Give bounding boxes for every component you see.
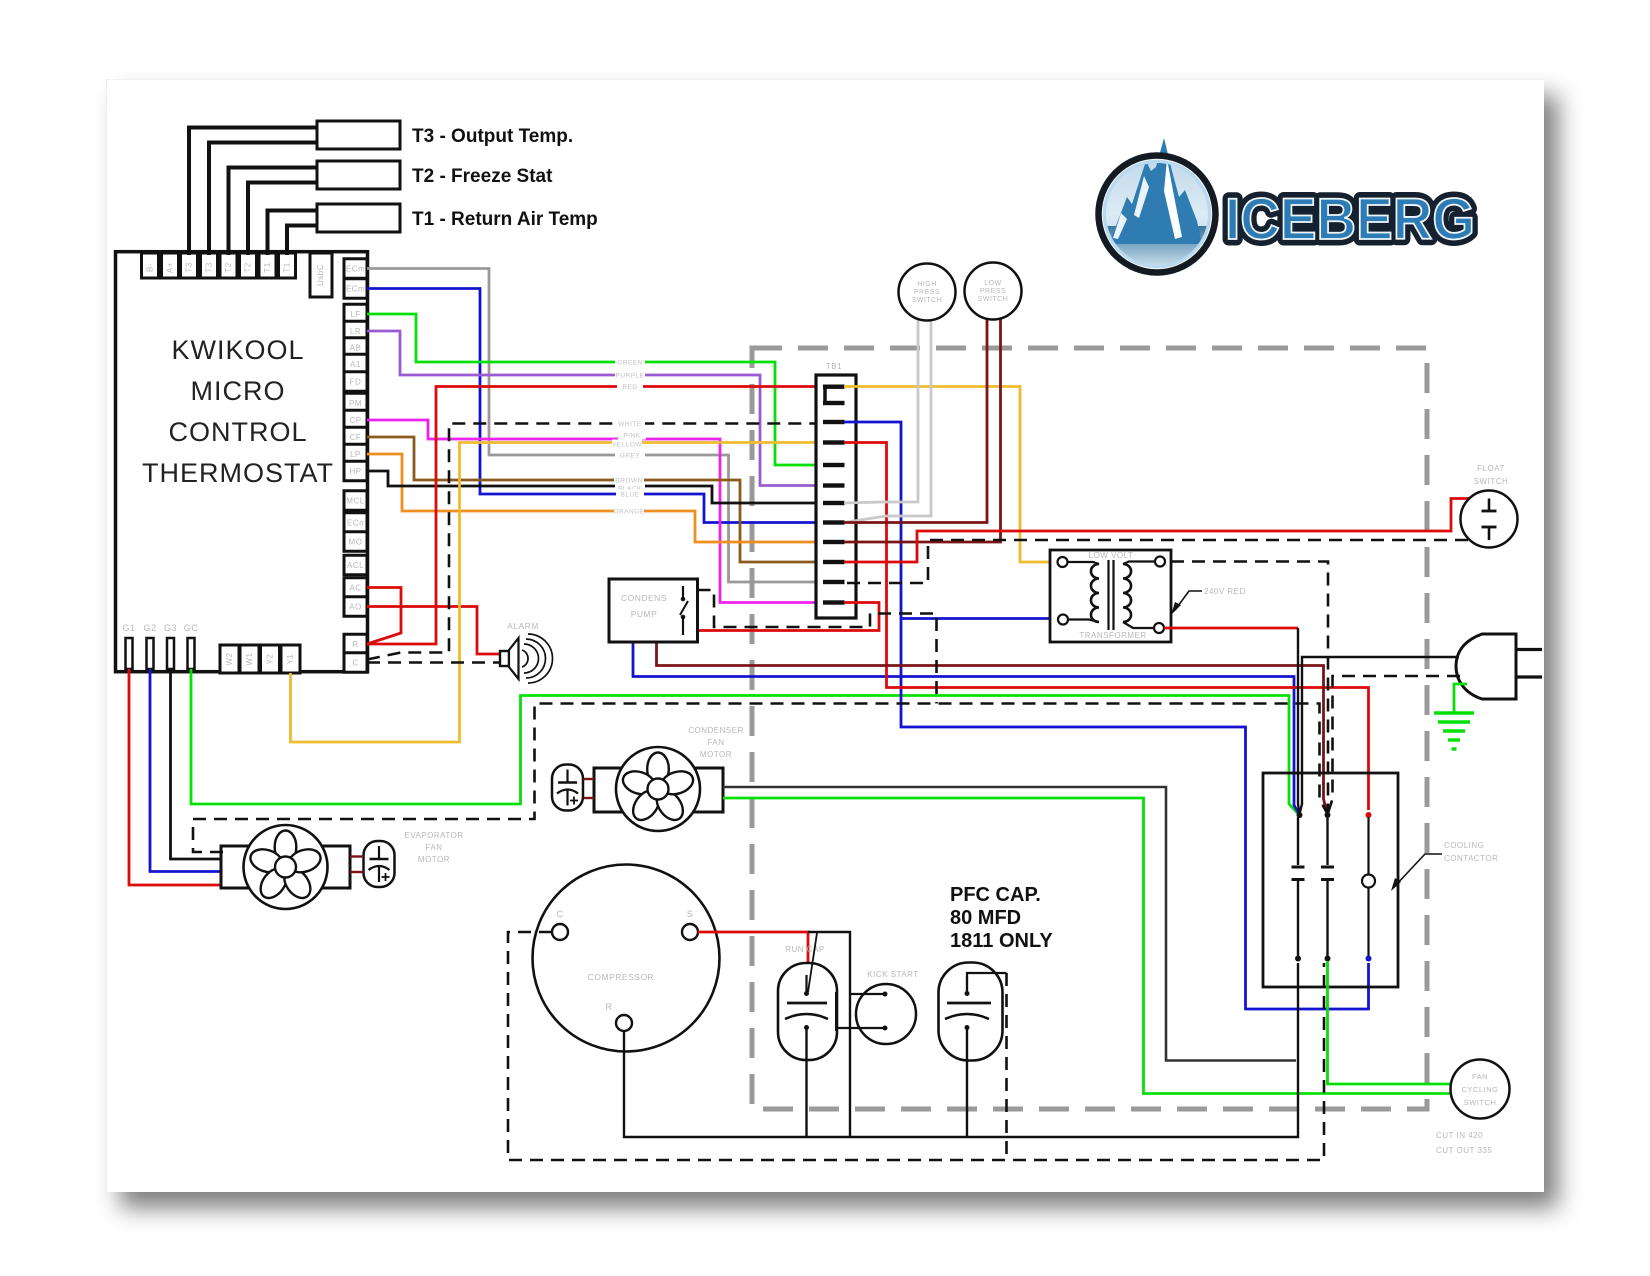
- svg-text:TB1: TB1: [826, 362, 842, 371]
- svg-text:KWIKOOL: KWIKOOL: [171, 335, 304, 365]
- wire BLACK HP-TB1: [367, 471, 827, 503]
- svg-text:LOW VOLT: LOW VOLT: [1089, 551, 1134, 560]
- svg-text:A+: A+: [166, 262, 175, 273]
- wire green condenser-fan cycling switch: [723, 798, 1451, 1094]
- svg-text:W2: W2: [225, 652, 234, 665]
- svg-text:GC: GC: [184, 623, 199, 633]
- svg-text:R: R: [606, 1002, 613, 1012]
- wire YELLOW TB1-transformer: [844, 387, 1057, 563]
- wire RED R-TB1: [367, 387, 827, 645]
- svg-text:FAN: FAN: [1472, 1072, 1488, 1081]
- svg-text:ORANGE: ORANGE: [613, 508, 644, 515]
- svg-text:TRANSFORMER: TRANSFORMER: [1079, 631, 1146, 640]
- svg-text:PRESS: PRESS: [914, 289, 940, 296]
- thermostat controller U1 box: [116, 252, 368, 672]
- evaporator fan motor M1: [221, 846, 350, 888]
- svg-text:ALARM: ALARM: [507, 621, 539, 631]
- wire evap cap lead a: [350, 855, 364, 857]
- condenser fan motor M2: [594, 768, 723, 812]
- wire dashed plug neutral: [1328, 676, 1460, 813]
- svg-text:ECm: ECm: [346, 285, 365, 294]
- svg-text:PURPLE: PURPLE: [615, 372, 644, 379]
- svg-text:Y1: Y1: [286, 654, 295, 665]
- svg-text:WHITE: WHITE: [618, 421, 642, 428]
- svg-text:LOW: LOW: [984, 280, 1001, 287]
- wire WHITE dashed C-TB1: [367, 424, 827, 660]
- kick start relay K1: [856, 984, 916, 1044]
- svg-text:CP: CP: [349, 416, 361, 425]
- svg-text:C: C: [557, 909, 564, 919]
- compressor M3: [533, 865, 720, 1052]
- wire sensor T2 lead b: [248, 183, 317, 256]
- wire sensor T3 lead a: [189, 128, 317, 256]
- float switch S3: [1461, 491, 1518, 548]
- sensor T1 box: [317, 204, 400, 232]
- svg-text:RUN CAP: RUN CAP: [785, 945, 825, 954]
- condensate pump box: [609, 579, 698, 642]
- wire GREEN LF-TB1: [367, 314, 827, 465]
- wire RED pump-TB1: [698, 603, 880, 631]
- thermostat top terminal row B- A+ T3 T3 T2 T2 T1 T1: [142, 253, 296, 278]
- wire GC green to contactor: [191, 669, 1299, 814]
- svg-text:PINK: PINK: [623, 432, 640, 439]
- wire BROWN CF-TB1: [367, 437, 827, 562]
- wire BLUE to contactor col1: [901, 677, 1299, 815]
- svg-text:T3: T3: [205, 262, 214, 272]
- low pressure switch S2: [965, 263, 1022, 320]
- wire dashed evap neutral: [193, 704, 1327, 853]
- wire label BLACK: [615, 484, 645, 493]
- wire RED AO-alarm: [367, 607, 500, 655]
- terminal block TB1: [816, 375, 856, 618]
- svg-text:COMPRESSOR: COMPRESSOR: [588, 972, 654, 982]
- thermostat label KWIKOOL MICRO CONTROL THERMOSTAT: [142, 335, 334, 488]
- svg-text:T3 - Output Temp.: T3 - Output Temp.: [412, 126, 573, 147]
- svg-text:FAN: FAN: [425, 843, 442, 852]
- run capacitor C1: [778, 963, 837, 1060]
- svg-text:MCL: MCL: [346, 497, 364, 506]
- wire ORANGE LP-TB1: [367, 454, 827, 542]
- wire sensor T3 lead b: [209, 143, 317, 256]
- svg-text:T1 - Return Air Temp: T1 - Return Air Temp: [412, 209, 598, 230]
- svg-text:FAN: FAN: [707, 738, 724, 747]
- svg-text:PRESS: PRESS: [980, 288, 1006, 295]
- wire sensor T1 lead a: [268, 211, 318, 256]
- svg-text:240V RED: 240V RED: [1204, 587, 1246, 596]
- thermostat right terminal column: [344, 259, 367, 673]
- svg-text:EVAPORATOR: EVAPORATOR: [404, 831, 463, 840]
- wire black S to kick start: [808, 932, 850, 1137]
- condenser fan capacitor C-cf: [552, 765, 583, 811]
- wire dashed pump control: [698, 590, 937, 704]
- svg-text:T2 - Freeze Stat: T2 - Freeze Stat: [412, 166, 553, 187]
- wire evap cap lead b: [350, 871, 364, 873]
- svg-text:PUMP: PUMP: [631, 609, 658, 619]
- cooling contactor K2: [1263, 773, 1398, 987]
- svg-text:SWITCH: SWITCH: [1464, 1098, 1497, 1107]
- svg-text:BLUE: BLUE: [621, 491, 640, 498]
- svg-text:PM: PM: [349, 399, 362, 408]
- transformer T1 low volt: [1050, 550, 1171, 642]
- wire RED AC-R jumper: [367, 588, 401, 645]
- svg-text:RED: RED: [622, 384, 637, 391]
- PFC capacitor C2: [939, 963, 1003, 1061]
- wire dashed float switch-TB1: [844, 540, 1489, 583]
- thermostat UsbC terminal: [310, 253, 332, 297]
- wire YELLOW Y1-TB1: [291, 443, 828, 743]
- svg-text:YELLOW: YELLOW: [612, 441, 642, 448]
- wire RED compressor S: [698, 932, 808, 975]
- svg-text:1811 ONLY: 1811 ONLY: [950, 930, 1053, 952]
- wire GREY ECm-TB1: [367, 269, 827, 583]
- svg-text:S: S: [687, 909, 694, 919]
- svg-text:CONDENSER: CONDENSER: [688, 726, 744, 735]
- svg-text:MOTOR: MOTOR: [418, 855, 450, 864]
- wire RED transformer 240V: [1164, 627, 1298, 630]
- svg-text:LR: LR: [350, 327, 361, 336]
- wire PFC cap top lead: [967, 973, 1007, 994]
- ground symbol: [1454, 684, 1467, 713]
- wire cond cap lead a: [584, 778, 595, 780]
- wire G3 black to evap fan: [171, 669, 224, 859]
- svg-text:PFC CAP.: PFC CAP.: [950, 884, 1041, 906]
- wire label GREEN: [615, 358, 645, 367]
- wire label GREY: [615, 451, 645, 460]
- wire dashed transformer-contactor: [1171, 562, 1328, 814]
- svg-text:CF: CF: [350, 433, 362, 442]
- ICEBERG logo: [1099, 138, 1476, 273]
- wire green contactor-fan cycling switch: [1328, 961, 1452, 1084]
- svg-text:T2: T2: [244, 262, 253, 272]
- wire WHITE TB1-high press A: [844, 319, 918, 503]
- svg-text:G1: G1: [122, 623, 135, 633]
- wire PURPLE LR-TB1: [367, 331, 827, 486]
- svg-text:G2: G2: [143, 623, 156, 633]
- svg-text:W1: W1: [245, 652, 254, 665]
- svg-text:AC: AC: [349, 584, 361, 593]
- svg-text:ECm: ECm: [346, 265, 365, 274]
- svg-text:MO: MO: [349, 538, 363, 547]
- svg-text:BROWN: BROWN: [615, 477, 642, 484]
- wire G2 blue to evap fan: [150, 669, 223, 872]
- wire RED TB1-contactor: [844, 443, 1369, 811]
- svg-text:MICRO: MICRO: [191, 376, 286, 406]
- svg-text:SWITCH: SWITCH: [912, 297, 943, 304]
- wire label BROWN: [614, 476, 644, 485]
- svg-text:FD: FD: [350, 378, 362, 387]
- svg-text:AB: AB: [350, 344, 362, 353]
- svg-text:ICEBERG: ICEBERG: [1225, 187, 1475, 252]
- wire black plug hot: [1300, 657, 1460, 814]
- thermostat bottom terminal row W2 W1 Y2 Y1: [220, 645, 300, 673]
- wire black transformer to contactor: [1298, 628, 1300, 814]
- svg-text:LP: LP: [350, 450, 361, 459]
- svg-text:GREY: GREY: [620, 452, 641, 459]
- svg-text:CYCLING: CYCLING: [1462, 1085, 1499, 1094]
- svg-text:A1: A1: [350, 360, 361, 369]
- wire RED TB1-float switch: [844, 499, 1489, 563]
- wire dashed PFC-neutral: [1005, 973, 1008, 1160]
- svg-text:COOLING: COOLING: [1444, 841, 1484, 850]
- svg-text:R: R: [352, 640, 358, 649]
- svg-text:SWITCH: SWITCH: [978, 296, 1009, 303]
- wire label PURPLE: [615, 371, 645, 380]
- thermostat G terminals G1 G2 G3 GC: [122, 623, 198, 669]
- svg-text:CUT OUT 335: CUT OUT 335: [1436, 1146, 1492, 1155]
- wire label BLUE: [616, 490, 644, 499]
- wire cond cap lead b: [584, 797, 595, 799]
- wire MAROON TB1-low press A: [844, 318, 987, 523]
- svg-text:SWITCH: SWITCH: [1474, 477, 1509, 486]
- wire PINK CP-TB1: [367, 420, 827, 603]
- svg-text:Y2: Y2: [266, 654, 275, 665]
- wire WHITE TB1-high press B: [844, 319, 931, 523]
- fan cycling switch S4: [1451, 1060, 1510, 1119]
- sensor T2 box: [317, 161, 400, 189]
- wire BLUE branch to transformer: [901, 617, 1057, 620]
- svg-text:CONTROL: CONTROL: [168, 417, 307, 447]
- wire label RED: [617, 382, 643, 391]
- wire MAROON TB1-low press B: [844, 318, 1001, 542]
- wire label WHITE: [615, 419, 645, 428]
- wire dashed compressor C-neutral: [508, 932, 1324, 1160]
- wire label PINK: [618, 431, 646, 440]
- wire black condenser-contactor: [723, 787, 1296, 1061]
- svg-text:KICK START: KICK START: [867, 970, 918, 979]
- svg-text:C: C: [352, 659, 358, 668]
- svg-text:T3: T3: [185, 262, 194, 272]
- svg-text:CUT IN 420: CUT IN 420: [1436, 1131, 1483, 1140]
- machine enclosure grey dashed box: [752, 348, 1427, 1109]
- svg-text:HP: HP: [349, 467, 361, 476]
- power plug P1: [1456, 634, 1516, 699]
- svg-text:MOTOR: MOTOR: [700, 750, 732, 759]
- svg-text:T1: T1: [283, 262, 292, 272]
- wire label ORANGE: [614, 507, 644, 516]
- wire BLUE condensate pump: [633, 642, 901, 677]
- svg-text:GREEN: GREEN: [617, 359, 643, 366]
- wire compressor R run line: [624, 963, 1298, 1137]
- wire BLUE ECm-TB1: [367, 289, 827, 523]
- svg-text:LF: LF: [350, 310, 360, 319]
- alarm speaker LS1: [500, 651, 509, 666]
- svg-text:ACL: ACL: [347, 561, 364, 570]
- svg-text:G3: G3: [164, 623, 177, 633]
- wire label YELLOW: [612, 440, 642, 449]
- high pressure switch S1: [899, 264, 956, 321]
- wire G1 red to evap fan: [129, 669, 223, 885]
- svg-text:T2: T2: [224, 262, 233, 272]
- wire MAROON pump-contactor: [657, 642, 1328, 813]
- svg-text:B-: B-: [146, 263, 155, 272]
- wire dashed C-alarm: [367, 661, 500, 664]
- svg-text:HIGH: HIGH: [917, 281, 937, 288]
- sensor T3 box: [317, 121, 400, 149]
- svg-text:AO: AO: [349, 603, 362, 612]
- evaporator fan capacitor C-ev: [364, 841, 395, 887]
- svg-text:THERMOSTAT: THERMOSTAT: [142, 458, 334, 488]
- svg-text:80 MFD: 80 MFD: [950, 907, 1021, 929]
- wire sensor T1 lead b: [287, 226, 317, 256]
- svg-text:UsbC: UsbC: [316, 264, 325, 286]
- wire BLUE TB1 run: [844, 422, 1369, 1009]
- wire sensor T2 lead a: [229, 168, 318, 256]
- svg-text:CONDENS: CONDENS: [621, 593, 667, 603]
- svg-text:ECn: ECn: [347, 519, 364, 528]
- svg-text:FLOAT: FLOAT: [1477, 464, 1505, 473]
- svg-text:CONTACTOR: CONTACTOR: [1444, 854, 1498, 863]
- svg-text:T1: T1: [263, 262, 272, 272]
